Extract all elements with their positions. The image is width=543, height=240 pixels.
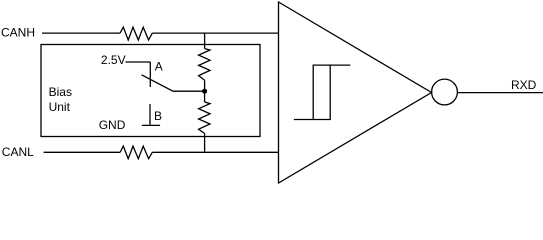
wire CANH left segment — [42, 32, 120, 34]
svg-text:RXD: RXD — [511, 78, 537, 92]
svg-text:2.5V: 2.5V — [101, 53, 126, 67]
resistor CANH series — [120, 27, 152, 40]
wire divider bottom stub — [204, 134, 206, 153]
svg-text:A: A — [155, 60, 163, 74]
hysteresis symbol — [294, 65, 350, 119]
svg-text:Unit: Unit — [49, 100, 71, 114]
switch blade — [142, 75, 205, 91]
svg-text:GND: GND — [99, 118, 126, 132]
junction node dot — [202, 89, 207, 94]
wire CANL left segment — [44, 151, 121, 153]
switch contact B bar — [142, 124, 160, 126]
svg-text:CANH: CANH — [1, 26, 35, 40]
wire divider middle — [204, 80, 206, 102]
output inversion bubble — [432, 79, 458, 105]
switch contact A stub — [149, 62, 151, 87]
wire CANL right segment — [152, 151, 278, 153]
wire divider top stub — [204, 33, 206, 49]
switch contact B stub — [149, 104, 151, 125]
svg-text:B: B — [154, 109, 162, 123]
svg-text:CANL: CANL — [2, 145, 34, 159]
resistor CANL series — [120, 146, 152, 159]
svg-text:Bias: Bias — [49, 85, 72, 99]
Bias Unit box — [41, 45, 260, 137]
wire RXD output — [458, 92, 543, 94]
resistor divider lower — [199, 102, 210, 134]
resistor divider upper — [199, 49, 210, 81]
wire CANH right segment — [152, 32, 278, 34]
wire 2.5V to contact A — [126, 61, 151, 63]
comparator triangle U1 — [279, 2, 432, 183]
